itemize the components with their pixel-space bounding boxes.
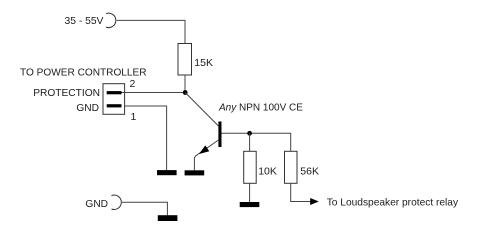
svg-text:15K: 15K (194, 57, 213, 69)
svg-text:TO POWER CONTROLLER: TO POWER CONTROLLER (20, 67, 147, 78)
node A junction dot (183, 90, 188, 95)
connector J2 pin 1 bar (107, 104, 122, 107)
node B junction dot (247, 131, 252, 136)
arrowhead to relay (310, 198, 319, 205)
svg-text:GND: GND (76, 103, 99, 114)
wire R2 bottom to ground (249, 183, 251, 202)
wire J1 to corner (117, 20, 185, 43)
svg-text:1: 1 (131, 111, 137, 123)
resistor R1 15K (178, 44, 192, 76)
connector J2 pin 2 bar (107, 91, 122, 94)
wire pin1 to ground (125, 106, 167, 170)
ground bar (R2) (240, 202, 260, 207)
ground bar (pin1) (157, 170, 177, 175)
wire pin2 to node A (122, 92, 186, 94)
ground bar (J3) (158, 215, 178, 221)
connector J3 (GND) (112, 195, 122, 209)
wire R3 bottom to relay arrow (291, 183, 311, 201)
transistor Q1 emitter arrowhead (199, 145, 209, 154)
svg-text:35 - 55V: 35 - 55V (65, 16, 104, 27)
svg-text:10K: 10K (258, 165, 277, 177)
svg-text:PROTECTION: PROTECTION (33, 88, 100, 99)
svg-text:56K: 56K (300, 165, 319, 177)
resistor R3 56K (285, 151, 298, 183)
svg-text:GND: GND (85, 199, 108, 210)
transistor Q1 collector wire (185, 93, 218, 127)
connector J1 (35-55V input) (106, 13, 116, 27)
svg-text:To Loudspeaker protect relay: To Loudspeaker protect relay (327, 198, 459, 209)
wire Q1 base to R3 (222, 133, 291, 151)
svg-text:2: 2 (130, 78, 136, 90)
wire node B to R2 top (249, 133, 251, 151)
resistor R2 10K (244, 151, 257, 183)
transistor Q1 emitter wire (194, 140, 218, 170)
svg-text:Any NPN 100V CE: Any NPN 100V CE (218, 103, 303, 114)
transistor Q1 base bar (218, 122, 221, 148)
wire J3 to ground (122, 202, 167, 215)
connector J2 body (103, 84, 125, 115)
wire R1 bottom to node A (184, 75, 186, 93)
ground bar (emitter) (185, 170, 205, 175)
